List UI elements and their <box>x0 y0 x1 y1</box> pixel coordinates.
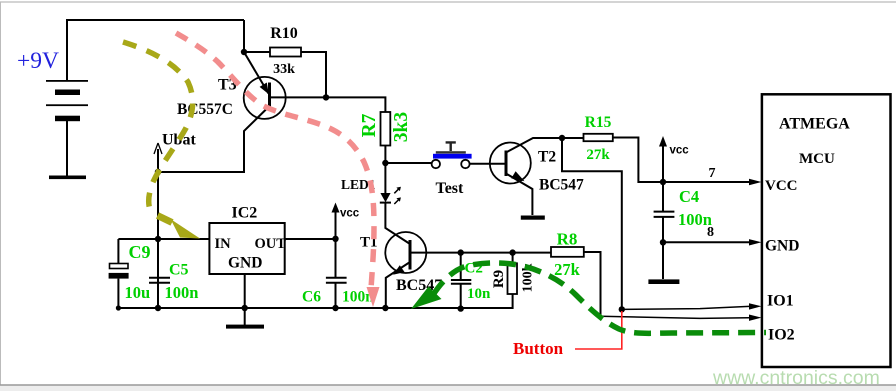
svg-text:BC547: BC547 <box>539 177 584 194</box>
svg-text:VCC: VCC <box>765 178 798 194</box>
svg-text:R10: R10 <box>270 25 298 42</box>
svg-text:100n: 100n <box>678 210 712 229</box>
svg-text:GND: GND <box>228 255 262 272</box>
svg-text:IN: IN <box>215 236 232 252</box>
svg-text:ATMEGA: ATMEGA <box>779 116 850 133</box>
svg-text:100n: 100n <box>165 283 199 302</box>
svg-text:R15: R15 <box>585 114 612 131</box>
svg-text:Ubat: Ubat <box>162 132 196 149</box>
svg-text:27k: 27k <box>554 260 581 279</box>
svg-text:vcc: vcc <box>340 208 360 220</box>
svg-text:BC557C: BC557C <box>177 101 233 118</box>
svg-text:IC2: IC2 <box>232 205 258 222</box>
svg-text:MCU: MCU <box>799 151 835 167</box>
svg-text:+9V: +9V <box>17 48 59 74</box>
svg-text:R7: R7 <box>359 113 380 137</box>
svg-text:R8: R8 <box>557 230 578 249</box>
svg-text:27k: 27k <box>586 147 610 163</box>
svg-text:R9: R9 <box>491 270 507 288</box>
svg-text:C5: C5 <box>169 262 189 279</box>
svg-text:www.cntronics.com: www.cntronics.com <box>712 367 880 389</box>
svg-text:10n: 10n <box>467 286 491 302</box>
svg-text:OUT: OUT <box>255 236 287 252</box>
svg-text:GND: GND <box>765 238 799 255</box>
svg-text:7: 7 <box>709 166 716 181</box>
svg-text:C4: C4 <box>679 187 699 206</box>
svg-text:Test: Test <box>436 180 465 197</box>
svg-text:10u: 10u <box>125 283 151 302</box>
svg-text:vcc: vcc <box>670 145 690 157</box>
svg-text:3k3: 3k3 <box>391 112 412 143</box>
svg-text:Button: Button <box>513 339 564 358</box>
svg-text:C6: C6 <box>302 289 321 306</box>
svg-text:IO1: IO1 <box>767 293 794 310</box>
svg-text:33k: 33k <box>273 62 295 77</box>
svg-text:IO2: IO2 <box>768 327 795 344</box>
svg-text:T2: T2 <box>538 149 556 166</box>
svg-text:C9: C9 <box>129 242 151 262</box>
